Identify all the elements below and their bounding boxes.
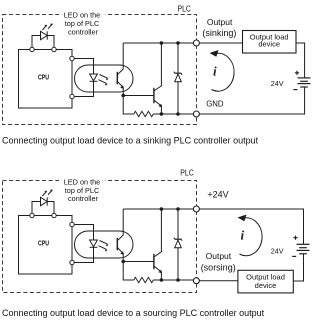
node B junction xyxy=(121,260,125,264)
terminal Output (sinking) xyxy=(193,40,199,46)
node LED terminals on CPU (bottom) xyxy=(30,213,34,217)
svg-text:24V: 24V xyxy=(271,79,284,88)
svg-text:+24V: +24V xyxy=(207,190,228,200)
label battery polarity - xyxy=(293,89,297,91)
LED D1 (status LED) xyxy=(41,24,53,40)
label LED note (top) xyxy=(59,11,105,36)
terminal Output (sorsing) xyxy=(193,278,199,284)
wire terminal to load box (bottom) xyxy=(199,280,238,282)
wire base xyxy=(123,95,154,97)
optocoupler U2 body xyxy=(75,65,134,92)
svg-text:PLC: PLC xyxy=(177,5,191,14)
LED inside optocoupler (bottom) xyxy=(90,240,98,247)
current arrow i (top) xyxy=(210,50,235,91)
svg-text:Connecting output load device: Connecting output load device to a sinki… xyxy=(2,136,259,146)
svg-text:controller: controller xyxy=(68,194,99,203)
battery BT1 24V xyxy=(298,78,311,87)
LED D3 (status LED) xyxy=(41,190,53,206)
svg-text:controller: controller xyxy=(68,27,99,36)
CPU U1 xyxy=(19,50,73,109)
zener diode D2 xyxy=(174,43,182,114)
resistor R1 xyxy=(134,111,154,116)
junction dots on rails xyxy=(160,41,164,45)
wire battery to GND terminal xyxy=(199,87,304,114)
optocoupler U4 body xyxy=(75,231,134,258)
wire +24V terminal to battery xyxy=(199,209,303,244)
node A junction xyxy=(121,94,125,98)
light arrows (bottom) xyxy=(99,241,109,252)
label LED note (bottom) xyxy=(59,178,105,203)
svg-text:i: i xyxy=(213,64,217,79)
wire load to battery xyxy=(296,43,305,78)
battery BT2 24V xyxy=(297,244,310,254)
svg-text:device: device xyxy=(258,40,280,49)
current arrow i (bottom) xyxy=(238,215,263,256)
svg-text:Connecting output load device: Connecting output load device to a sourc… xyxy=(2,308,265,318)
transistor Q4 output NPN xyxy=(154,209,162,280)
PLC dashed enclosure (top) xyxy=(3,15,197,125)
resistor R2 xyxy=(134,277,154,282)
terminal +24V xyxy=(193,206,199,212)
phototransistor Q1 xyxy=(117,43,124,96)
wire collector rail (bottom diagram top) xyxy=(123,208,193,210)
wire base (bottom) xyxy=(123,261,154,263)
light arrows xyxy=(99,75,109,86)
label battery polarity + (bottom) xyxy=(293,236,297,240)
wire LED bracket xyxy=(32,36,54,48)
svg-text:Output: Output xyxy=(206,251,232,261)
svg-text:CPU: CPU xyxy=(38,240,49,247)
wire CPU to optocoupler LED (bottom) xyxy=(74,225,93,263)
wire emitter rail (bottom diagram bottom) xyxy=(123,262,193,281)
CPU U3 xyxy=(19,216,73,275)
svg-text:CPU: CPU xyxy=(38,74,49,81)
phototransistor Q3 xyxy=(117,209,124,262)
PLC dashed enclosure (bottom) xyxy=(3,181,197,293)
wire collector rail (top) xyxy=(123,42,193,44)
svg-text:(sinking): (sinking) xyxy=(202,28,236,38)
zener diode D4 xyxy=(174,209,182,280)
transistor Q2 output NPN xyxy=(154,43,162,114)
wire emitter rail (bottom) xyxy=(123,96,193,115)
svg-text:PLC: PLC xyxy=(180,169,194,178)
wire CPU to optocoupler LED xyxy=(74,59,93,97)
svg-text:(sorsing): (sorsing) xyxy=(201,262,236,272)
node CPU output pins (bottom) xyxy=(70,222,74,226)
node LED terminals on CPU (top) xyxy=(30,47,34,51)
junction dots on rails (bottom) xyxy=(160,207,164,211)
wire terminal to load xyxy=(199,42,242,44)
LED inside optocoupler xyxy=(90,74,98,81)
terminal GND xyxy=(193,111,199,117)
label battery polarity - (bottom) xyxy=(292,255,296,257)
wire battery to load box xyxy=(293,254,303,281)
svg-text:Output: Output xyxy=(207,17,233,27)
output load device box (bottom) xyxy=(238,270,293,293)
node CPU output pins xyxy=(70,56,74,60)
svg-text:i: i xyxy=(241,228,245,243)
output load device box (top) xyxy=(243,31,297,54)
svg-text:device: device xyxy=(255,281,277,290)
svg-text:24V: 24V xyxy=(271,247,284,256)
label battery polarity + xyxy=(295,71,299,75)
svg-text:GND: GND xyxy=(206,100,224,109)
wire LED bracket (bottom) xyxy=(32,202,54,214)
